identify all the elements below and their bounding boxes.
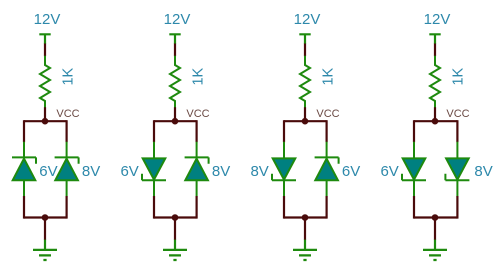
svg-text:VCC: VCC xyxy=(316,108,339,120)
wire to ground xyxy=(304,218,306,241)
svg-text:1K: 1K xyxy=(321,67,337,85)
wire right branch xyxy=(65,120,67,142)
wire terminal to resistor xyxy=(174,44,176,57)
resistor 1K xyxy=(300,56,310,108)
wire left branch bottom xyxy=(153,196,155,219)
wire top rail xyxy=(284,120,327,122)
resistor 1K xyxy=(430,56,440,108)
wire resistor to VCC node xyxy=(174,107,176,121)
wire bottom rail xyxy=(24,216,67,218)
zener diode D2 xyxy=(55,142,79,197)
wire right branch bottom xyxy=(196,196,198,219)
junction node bottom xyxy=(432,214,439,221)
svg-text:8V: 8V xyxy=(212,163,230,180)
junction node bottom xyxy=(172,214,179,221)
wire to ground xyxy=(434,218,436,241)
svg-text:VCC: VCC xyxy=(56,108,79,120)
wire bottom rail xyxy=(284,216,327,218)
wire top rail xyxy=(154,120,197,122)
zener diode D1 xyxy=(402,142,426,197)
wire top rail xyxy=(414,120,457,122)
svg-text:VCC: VCC xyxy=(186,108,209,120)
junction node VCC xyxy=(302,118,309,125)
svg-text:8V: 8V xyxy=(250,163,268,180)
zener diode D2 xyxy=(315,142,339,197)
junction node VCC xyxy=(432,118,439,125)
junction node VCC xyxy=(42,118,49,125)
wire bottom rail xyxy=(154,216,197,218)
svg-text:12V: 12V xyxy=(294,11,321,28)
wire resistor to VCC node xyxy=(304,107,306,121)
wire terminal to resistor xyxy=(304,44,306,57)
wire right branch bottom xyxy=(65,196,67,219)
svg-text:12V: 12V xyxy=(34,11,61,28)
zener diode D1 xyxy=(272,142,296,197)
resistor 1K xyxy=(170,56,180,108)
zener diode D2 xyxy=(445,142,469,197)
wire terminal to resistor xyxy=(44,44,46,57)
zener diode D1 xyxy=(12,142,36,197)
wire left branch xyxy=(413,120,415,142)
svg-text:8V: 8V xyxy=(474,163,492,180)
wire left branch bottom xyxy=(413,196,415,219)
wire right branch bottom xyxy=(326,196,328,219)
svg-text:8V: 8V xyxy=(82,163,100,180)
wire to ground xyxy=(44,218,46,241)
svg-text:12V: 12V xyxy=(424,11,451,28)
wire left branch xyxy=(23,120,25,142)
junction node VCC xyxy=(172,118,179,125)
zener diode D2 xyxy=(185,142,209,197)
wire right branch bottom xyxy=(456,196,458,219)
junction node bottom xyxy=(302,214,309,221)
wire right branch xyxy=(326,120,328,142)
svg-text:12V: 12V xyxy=(164,11,191,28)
wire resistor to VCC node xyxy=(44,107,46,121)
wire terminal to resistor xyxy=(434,44,436,57)
svg-text:6V: 6V xyxy=(120,163,138,180)
wire resistor to VCC node xyxy=(434,107,436,121)
svg-text:1K: 1K xyxy=(191,67,207,85)
svg-text:6V: 6V xyxy=(342,163,360,180)
wire left branch xyxy=(153,120,155,142)
svg-text:VCC: VCC xyxy=(446,108,469,120)
svg-text:1K: 1K xyxy=(451,67,467,85)
zener diode D1 xyxy=(142,142,166,197)
ground xyxy=(423,240,447,260)
junction node bottom xyxy=(42,214,49,221)
ground xyxy=(33,240,57,260)
svg-text:1K: 1K xyxy=(61,67,77,85)
wire to ground xyxy=(174,218,176,241)
resistor 1K xyxy=(40,56,50,108)
wire right branch xyxy=(456,120,458,142)
ground xyxy=(163,240,187,260)
wire right branch xyxy=(196,120,198,142)
svg-text:6V: 6V xyxy=(39,163,57,180)
svg-text:6V: 6V xyxy=(380,163,398,180)
wire left branch bottom xyxy=(283,196,285,219)
wire left branch bottom xyxy=(23,196,25,219)
wire top rail xyxy=(24,120,67,122)
wire bottom rail xyxy=(414,216,457,218)
ground xyxy=(293,240,317,260)
wire left branch xyxy=(283,120,285,142)
